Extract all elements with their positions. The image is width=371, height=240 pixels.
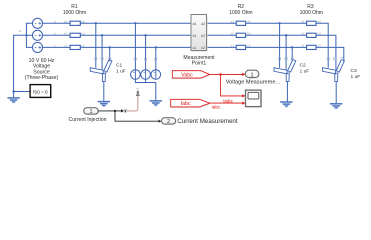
svg-text:b2: b2 (81, 31, 85, 35)
pin labels around R2 (231, 19, 251, 47)
wire C2 tap c (291, 47, 293, 61)
svg-text:n: n (19, 29, 21, 33)
inport 1 Current Injection shadow (85, 109, 100, 115)
svg-text:1 uF: 1 uF (351, 74, 361, 80)
node C2 tap phase a (278, 22, 280, 24)
svg-text:b1: b1 (301, 31, 305, 35)
node C1 tap phase c (109, 46, 111, 48)
svg-text:Vabc: Vabc (223, 98, 234, 103)
wire phase a source to R1 to Measurement Point (42, 22, 191, 24)
wire Current Injection to converter (98, 110, 121, 112)
wire C1 tap c (109, 47, 111, 61)
wire C1 tap a (95, 23, 97, 68)
arrowhead into converter (121, 109, 124, 112)
svg-text:1: 1 (251, 72, 254, 78)
svg-text:b1: b1 (64, 31, 68, 35)
resistor R1 phase c (70, 45, 80, 49)
svg-text:b2: b2 (317, 31, 321, 35)
svg-text:c1: c1 (231, 44, 235, 48)
svg-text:1000 Ohm: 1000 Ohm (300, 10, 323, 16)
svg-text:a2: a2 (247, 19, 251, 23)
resistor R2 phase a (236, 21, 245, 25)
node current injection junction (114, 110, 116, 112)
pin labels around R3 (301, 19, 321, 47)
node source-circle tap phase a (134, 22, 136, 24)
wire C2 tap b (285, 35, 287, 69)
wire Vabc junction down to scope (221, 74, 242, 96)
svg-text:b2: b2 (247, 31, 251, 35)
node C1 tap phase a (95, 22, 97, 24)
converter glyph (125, 109, 127, 112)
svg-text:Voltage Measureme...: Voltage Measureme... (226, 80, 281, 86)
svg-text:Current Measurement: Current Measurement (177, 118, 237, 125)
resistor R3 phase b (307, 33, 316, 37)
svg-text:a1: a1 (193, 22, 197, 26)
svg-text:C3: C3 (351, 68, 358, 74)
node neutral-ground junction (12, 90, 14, 92)
ground G5 (below C3) (330, 104, 342, 110)
arrowhead into scope input 1 (242, 94, 245, 97)
measurement circle 2 (phase b) (141, 70, 151, 80)
arrowhead into Voltage Measurement port (242, 73, 245, 76)
svg-text:1000 Ohm: 1000 Ohm (229, 10, 252, 16)
svg-text:Iabc: Iabc (212, 105, 222, 110)
wire phase c Measurement Point to R2 to R3 to C3 (207, 47, 344, 61)
wire tap b to measurement circle 2 (145, 35, 147, 79)
svg-text:a1: a1 (231, 19, 235, 23)
pin labels Measurement Point1 (193, 22, 206, 50)
wire Vabc to Voltage Measurement port (209, 73, 243, 75)
svg-text:b1: b1 (193, 34, 197, 38)
wire junction to Current Measurement (115, 111, 158, 121)
From tag Iabc (171, 99, 210, 107)
wire circle interiors vertical (135, 70, 155, 79)
svg-text:c2: c2 (81, 44, 85, 48)
resistor R3 phase c (307, 45, 316, 49)
svg-text:1 uF: 1 uF (300, 68, 310, 74)
svg-text:c2: c2 (318, 44, 322, 48)
svg-text:c2: c2 (201, 46, 205, 50)
svg-text:c1: c1 (193, 46, 197, 50)
svg-text:Current Injection: Current Injection (68, 117, 106, 123)
wire neutral n to solver and ground (14, 35, 31, 91)
ground G1 (source neutral) (7, 98, 19, 104)
svg-text:1: 1 (90, 109, 93, 115)
resistor R2 phase b (236, 33, 245, 37)
source polarity marks (35, 22, 41, 49)
resistor R3 phase a (307, 21, 316, 25)
wire C1 neutral to ground (103, 81, 105, 101)
wire circles bottom bus to ground (135, 79, 155, 101)
port marks above measurement circles (134, 58, 136, 60)
node source-circle tap phase c (155, 46, 157, 48)
voltage source Vb (32, 30, 42, 40)
svg-text:Iabc: Iabc (181, 101, 191, 107)
wire tap a to measurement circle 1 (134, 23, 136, 79)
node Vabc junction (219, 73, 221, 75)
wire phase b Measurement Point to R2 to R3 to C3 (207, 35, 336, 69)
svg-text:a2: a2 (201, 22, 205, 26)
wire C3 neutral to ground (335, 81, 337, 103)
Measurement Point1 block shadow (192, 16, 208, 52)
ground G2 (below C1) (98, 102, 110, 108)
wire phase b source to R1 to Measurement Point (42, 34, 191, 36)
wire tap c to measurement circle 3 (155, 47, 157, 78)
ground G3 (below measurement circles) (150, 101, 162, 107)
scope block (246, 90, 262, 107)
scope block shadow (246, 91, 262, 108)
wire C1 tap b (101, 35, 103, 69)
wire Iabc to scope input 2 (210, 102, 242, 104)
voltage source Va (32, 18, 42, 28)
node C2 tap phase c (291, 46, 293, 48)
wire circles bottom stubs (145, 79, 147, 83)
ground G4 (below C2) (280, 102, 292, 108)
capacitor C2 (three-phase wye) (274, 60, 296, 82)
solver block f(x)=0 shadow (31, 86, 52, 99)
From tag Vabc (172, 71, 209, 78)
svg-text:a1: a1 (301, 19, 305, 23)
svg-text:b2: b2 (201, 34, 205, 38)
wire phase a Measurement Point to R2 to R3 to C3 (207, 23, 329, 68)
voltage source Vc (32, 42, 42, 52)
svg-text:C1: C1 (116, 62, 123, 68)
wire ground stem below neutral junction (13, 92, 15, 98)
physical wire current injection (pink) (127, 95, 138, 111)
svg-text:2: 2 (167, 119, 170, 125)
outport 1 Voltage Measurement shadow (246, 71, 260, 78)
solver block f(x)=0 (30, 85, 51, 98)
node source-circle tap phase b (144, 34, 146, 36)
open connection marker at pink wire end (137, 91, 139, 93)
Measurement Point1 block (191, 15, 207, 51)
svg-text:1000 Ohm: 1000 Ohm (63, 10, 86, 16)
svg-text:a1: a1 (64, 19, 68, 23)
svg-text:b1: b1 (231, 31, 235, 35)
outport 1 Voltage Measurement (245, 70, 258, 77)
wire C2 tap a (279, 23, 281, 68)
scope screen (248, 92, 259, 99)
measurement circle 3 (phase c) (151, 70, 161, 80)
svg-text:1 uF: 1 uF (116, 68, 126, 74)
wire source left bus (26, 23, 33, 47)
From tag Vabc shadow (173, 72, 210, 79)
tiny marks inside measurement circles (133, 71, 155, 73)
resistor R1 phase a (70, 21, 80, 25)
resistor R1 phase b (70, 33, 80, 37)
svg-text:b: b (54, 31, 56, 35)
inport 1 Current Injection (84, 108, 99, 114)
wire source left stub phase b (26, 34, 33, 36)
node C1 tap phase b (101, 34, 103, 36)
svg-text:Point1: Point1 (192, 61, 207, 67)
svg-text:a: a (54, 19, 56, 23)
resistor R2 phase c (236, 45, 245, 49)
svg-text:a2: a2 (317, 19, 321, 23)
node neutral-bus junction (25, 34, 27, 36)
svg-text:c1: c1 (64, 44, 68, 48)
arrowhead into scope input 2 (242, 102, 245, 105)
outport 2 Current Measurement shadow (162, 119, 176, 125)
outport 2 Current Measurement (162, 118, 176, 124)
svg-text:(Three-Phase): (Three-Phase) (25, 75, 59, 81)
pin labels around R1 (54, 19, 85, 47)
svg-text:a2: a2 (81, 19, 85, 23)
svg-text:C2: C2 (300, 62, 307, 68)
svg-text:f(x) = 0: f(x) = 0 (33, 89, 48, 94)
capacitor C1 (three-phase wye) (90, 60, 112, 82)
svg-text:Vabc: Vabc (181, 72, 193, 78)
svg-text:c1: c1 (301, 44, 305, 48)
arrowhead into Current Measurement port (158, 120, 161, 123)
measurement circle 1 (phase a) (131, 70, 141, 80)
node C2 tap phase b (285, 34, 287, 36)
wire C2 neutral to ground (286, 81, 288, 101)
capacitor C3 (three-phase wye) (323, 60, 345, 82)
From tag Iabc shadow (172, 100, 211, 108)
svg-text:c2: c2 (247, 44, 251, 48)
wire phase c source to R1 to Measurement Point (42, 46, 191, 48)
